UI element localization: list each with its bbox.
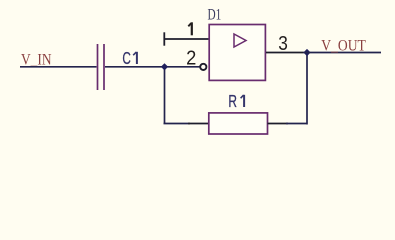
C1 digit 1 — [133, 52, 137, 64]
pin 1 end tick — [163, 32, 165, 45]
svg-text:D1: D1 — [208, 7, 222, 24]
svg-text:V_IN: V_IN — [21, 52, 52, 69]
wire feedback up to node B — [306, 53, 308, 125]
pin 1 line — [164, 38, 209, 40]
R1 digit 1 — [241, 95, 245, 107]
pin right of R1 — [268, 123, 289, 125]
wire C1 to node A — [105, 66, 165, 68]
pin number 1 — [188, 22, 192, 35]
pin left of R1 — [188, 123, 209, 125]
svg-text:C: C — [122, 48, 130, 68]
wire node A down to feedback rail — [164, 67, 166, 124]
wire V_IN to C1 left plate — [20, 66, 97, 68]
resistor R1 — [209, 113, 268, 134]
sheet background — [0, 0, 395, 147]
wire node B to V_OUT — [303, 52, 381, 54]
capacitor C1 — [98, 44, 105, 90]
pin 3 line — [266, 52, 303, 54]
junction node A — [161, 63, 168, 70]
op-amp triangle — [234, 34, 246, 47]
svg-text:2: 2 — [186, 48, 196, 70]
svg-text:V_OUT: V_OUT — [321, 37, 366, 54]
svg-text:R: R — [228, 91, 237, 111]
svg-text:3: 3 — [278, 33, 288, 55]
pin 2 wire from node A to bubble — [165, 66, 201, 68]
junction node B — [303, 49, 310, 56]
wire feedback rail right segment — [286, 123, 307, 125]
wire feedback rail left segment — [164, 123, 191, 125]
pin 2 bubble — [200, 64, 206, 70]
op-amp D1 body — [209, 25, 265, 81]
